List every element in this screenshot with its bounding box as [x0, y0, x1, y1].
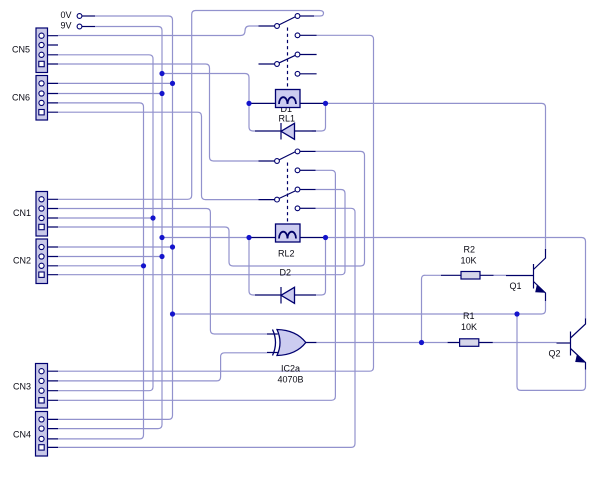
wire CN1 pin3	[58, 217, 153, 219]
svg-text:CN6: CN6	[12, 93, 30, 103]
svg-text:Q2: Q2	[549, 349, 561, 359]
RL2 switch pole1 arm	[279, 152, 295, 160]
node emitters	[514, 311, 519, 316]
wire CN6 pin2 to 9V	[58, 93, 162, 95]
resistor R2	[441, 274, 494, 276]
svg-text:10K: 10K	[461, 322, 477, 332]
RL1 switch pole2 common	[259, 63, 275, 65]
connector CN3	[13, 364, 58, 409]
connector CN1	[13, 192, 58, 237]
RL2 switch pole2 arm	[279, 191, 295, 199]
RL1 throw4	[295, 71, 300, 76]
connector CN4	[13, 412, 58, 457]
node CN2pin3	[141, 263, 146, 268]
RL1 switch pole1 arm	[279, 17, 295, 25]
svg-text:D2: D2	[280, 268, 292, 278]
wire CN6 pin1 to 0V	[58, 82, 173, 84]
wire CN2 pin4 to RL2 throw3	[58, 190, 345, 275]
RL2 throw4	[295, 206, 300, 211]
resistor R1	[448, 342, 493, 344]
node 9V-CN2pin2	[159, 254, 164, 259]
relay RL2 coil	[249, 237, 326, 239]
svg-text:CN2: CN2	[13, 256, 31, 266]
node RL1 coil right	[323, 101, 328, 106]
wire D1 anode to RL1 right junction	[312, 103, 326, 131]
svg-text:CN1: CN1	[13, 208, 31, 218]
wire CN2 pin3	[58, 265, 144, 267]
wire 0V to transistor emitters	[173, 301, 546, 314]
relay RL2 dashed link	[287, 163, 289, 224]
node 0V-CN2pin1	[170, 244, 175, 249]
RL1 switch pole2 arm	[279, 55, 295, 63]
RL1 throw2	[295, 33, 300, 38]
wire junction to R2	[422, 275, 442, 342]
wire RL1 junction to D1 cathode	[249, 103, 255, 131]
node 9V-RL2coil	[159, 235, 164, 240]
svg-text:R1: R1	[463, 311, 475, 321]
wire CN3 pin1 to RL1 throw2	[58, 35, 374, 371]
diode D2	[255, 294, 316, 296]
RL2 throw2	[295, 168, 300, 173]
transistor Q1	[533, 264, 535, 289]
wire 9V to RL2 coil left	[162, 237, 249, 239]
RL1 switch pole1 common	[259, 25, 275, 27]
wire CN4 pin4 to RL2 throw4	[58, 208, 355, 447]
wire D2 anode to RL2 right junction	[316, 238, 326, 296]
RL1 throw3	[295, 52, 300, 57]
svg-text:CN4: CN4	[13, 430, 31, 440]
wire R1 to Q2 base	[493, 342, 557, 344]
node 9V-RL1coil	[159, 71, 164, 76]
wire XOR output to R1	[316, 342, 447, 344]
svg-text:CN3: CN3	[13, 382, 31, 392]
connector CN6	[12, 76, 58, 121]
wire 9V rail	[58, 27, 162, 429]
svg-text:RL2: RL2	[278, 249, 295, 259]
node 0V-CN6pin1	[170, 81, 175, 86]
wire RL1 coil right to Q1 collector	[326, 103, 546, 250]
wire CN2 pin1 to 0V	[58, 246, 173, 248]
relay RL1 dashed link	[287, 28, 289, 89]
svg-text:IC2a: IC2a	[281, 364, 300, 374]
RL1 throw1	[295, 14, 300, 19]
svg-text:Q1: Q1	[510, 281, 522, 291]
svg-text:CN5: CN5	[12, 45, 30, 55]
wire RL2 coil right to Q2 collector	[326, 238, 586, 320]
RL2 throw1	[295, 149, 300, 154]
node CN1pin3	[150, 215, 155, 220]
wire rail CN6 pin3 to CN4 pin3	[58, 103, 144, 439]
relay RL1 coil	[249, 102, 326, 104]
wire RL2 junction to D2 cathode	[249, 238, 255, 296]
svg-text:RL1: RL1	[279, 114, 296, 124]
wire CN6 pin4 to RL2 common2	[58, 112, 259, 199]
diode D1	[255, 130, 316, 132]
node R1-R2	[419, 340, 424, 345]
RL2 switch pole1 common	[259, 160, 275, 162]
node RL2 coil left	[246, 235, 251, 240]
svg-text:10K: 10K	[461, 256, 477, 266]
node RL2 coil right	[323, 235, 328, 240]
wire 0V rail	[58, 16, 173, 419]
wire 9V to RL1 coil left	[162, 74, 249, 104]
node 0V-emitter row	[170, 311, 175, 316]
wire CN5 pin4 to RL2 common1	[58, 64, 259, 161]
wire Q2 emitter loop	[517, 314, 586, 390]
connector CN2	[13, 239, 58, 284]
svg-text:R2: R2	[464, 245, 476, 255]
svg-text:4070B: 4070B	[278, 375, 304, 385]
transistor Q2	[570, 332, 572, 356]
wire CN2 pin2 to 9V	[58, 256, 162, 258]
wire CN3 pin2 to XOR input2	[58, 353, 267, 381]
wire CN1 pin2 to XOR input1	[58, 209, 267, 335]
wire R2 to Q1 base	[494, 274, 507, 276]
op-amp XOR gate IC2a	[277, 330, 306, 356]
RL2 switch pole2 common	[259, 199, 275, 201]
node RL1 coil left	[246, 101, 251, 106]
RL2 throw3	[295, 187, 300, 192]
wire CN5 pin1 to RL1 common1	[58, 26, 259, 36]
node 9V-CN6pin2	[159, 91, 164, 96]
wire CN3 pin4 to RL2 throw2	[58, 170, 335, 400]
wire rail CN5 pin3 to CN3 pin3	[58, 55, 153, 391]
wire CN1 pin1 to RL1 throw1	[58, 11, 324, 200]
svg-text:0V: 0V	[61, 10, 72, 20]
connector CN5	[12, 28, 58, 73]
svg-text:9V: 9V	[61, 20, 72, 30]
wire CN1 pin4 to RL2 throw1	[58, 151, 365, 266]
